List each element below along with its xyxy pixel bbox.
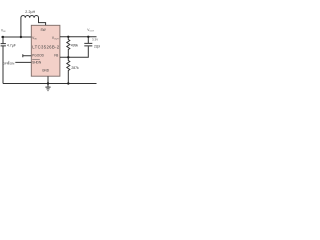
- capacitor C1 4.7uF: [1, 37, 16, 84]
- label OFF/ON: [3, 61, 15, 66]
- svg-text:ON: ON: [10, 61, 15, 65]
- svg-text:SHDN: SHDN: [32, 61, 42, 65]
- svg-text:22pF: 22pF: [94, 45, 100, 49]
- wire VIN rail: [1, 36, 31, 38]
- svg-text:499k: 499k: [71, 44, 79, 48]
- svg-text:GND: GND: [42, 68, 50, 72]
- ground symbol: [45, 87, 50, 91]
- capacitor C2 22pF (feedforward): [84, 37, 101, 49]
- wire SHDN control: [15, 61, 31, 63]
- resistor R1 499k: [67, 37, 79, 58]
- wire PGOOD stub: [23, 54, 32, 57]
- node VOUT-rail junction dot (C2): [87, 36, 89, 38]
- node VIN-rail junction dot (cap C1): [2, 36, 4, 38]
- wire GND pin: [47, 76, 49, 87]
- pin label SHDN (with overbar): [32, 60, 42, 65]
- svg-text:3.3V: 3.3V: [92, 37, 98, 41]
- svg-text:4.7µF: 4.7µF: [7, 43, 16, 47]
- svg-text:OFF: OFF: [3, 61, 9, 65]
- svg-text:PGOOD: PGOOD: [32, 54, 45, 58]
- svg-text:VOUT: VOUT: [87, 28, 94, 33]
- svg-text:LTC3526B-2: LTC3526B-2: [32, 44, 60, 49]
- svg-text:SW: SW: [41, 28, 46, 32]
- svg-text:FB: FB: [54, 53, 58, 57]
- svg-text:2.2µH: 2.2µH: [25, 10, 35, 14]
- svg-text:VIN: VIN: [1, 29, 6, 34]
- node VOUT-rail junction dot (R1): [67, 36, 69, 38]
- node VIN-rail junction dot (inductor leg): [20, 36, 22, 38]
- wire bottom GND rail: [3, 83, 97, 85]
- svg-text:287k: 287k: [71, 66, 79, 70]
- chip U1 LTC3526B-2 body: [31, 25, 60, 76]
- wire VOUT rail: [60, 36, 97, 38]
- inductor L1 2.2uH: [21, 10, 46, 37]
- wire FB net: [60, 46, 88, 57]
- node GND-rail junction dot (GND pin): [47, 82, 49, 84]
- node FB junction dot: [67, 56, 69, 58]
- node GND-rail junction dot (R2): [67, 82, 69, 84]
- resistor R2 287k: [67, 57, 79, 83]
